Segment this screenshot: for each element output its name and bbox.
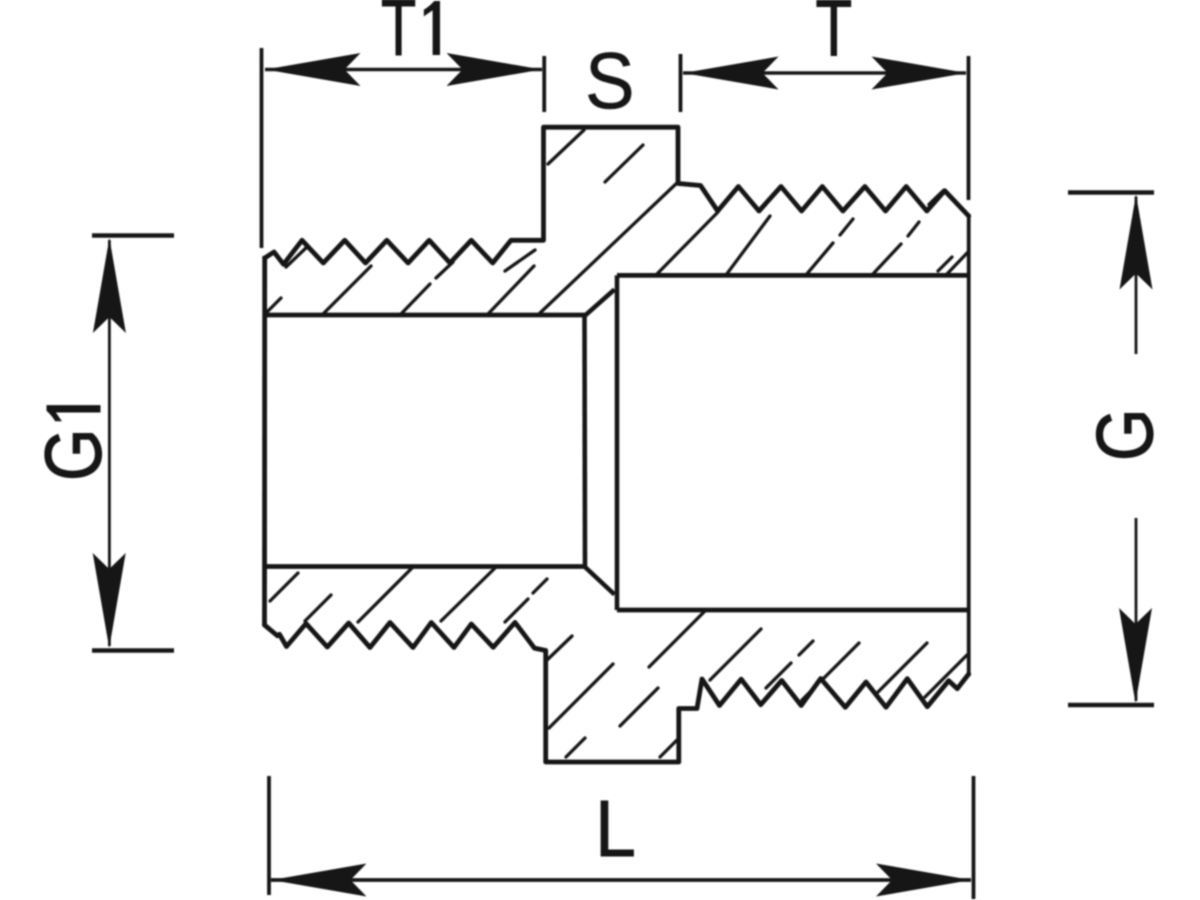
right end face [967,214,971,676]
dimension L extension line left [267,776,271,895]
dimension L extension line right [972,776,976,899]
G arrowhead up [1120,195,1153,290]
counterbore face [615,275,620,610]
shared extension line T1/S [542,56,546,112]
left end face [262,256,267,626]
dimension G bottom tick [1068,703,1154,708]
L arrowhead left [272,864,367,897]
dimension T1 extension line left [260,48,264,248]
T1 arrowhead right [447,53,542,86]
G1 arrowhead down [93,553,126,648]
svg-text:T: T [381,0,416,72]
dimension line L [271,878,971,882]
large bore bottom wall line [617,608,969,613]
dimension G1 top tick [92,233,174,238]
fitting outline: lower profile with threads and hex [265,622,969,762]
dimension G1 bottom tick [92,648,174,653]
large bore top wall line [617,273,969,278]
svg-text:T: T [816,0,853,72]
small bore end face [582,315,587,567]
dimension G line upper part [1135,197,1138,355]
section hatching, lower material band [270,567,967,757]
L arrowhead right [876,864,971,897]
dimension G top tick [1068,190,1154,195]
T1 arrowhead left [266,53,361,86]
dimension line T [683,71,966,74]
svg-text:L: L [595,784,636,874]
small bore bottom wall line [265,564,586,569]
svg-text:G: G [1080,408,1170,461]
dimension T extension line right [967,56,971,200]
label G1 rotated [28,405,118,481]
G arrowhead down [1119,608,1152,703]
label T1 [381,0,440,72]
G1 arrowhead up [93,238,126,333]
dimension line T1 [265,68,542,71]
shared extension line S/T [679,54,683,112]
small bore top wall line [265,313,585,318]
thread runout sliver, upper right [929,191,944,205]
section hatching, upper material band [266,130,969,315]
dimension G line lower part [1135,518,1138,701]
fitting outline: upper profile with threads and hex [265,127,969,264]
svg-text:S: S [585,37,635,126]
bore transition chamfer top [585,290,615,317]
T arrowhead left [684,57,779,90]
dimension G1 line [108,240,111,646]
T arrowhead right [872,57,967,90]
svg-text:G: G [28,428,118,481]
bore transition chamfer bottom [585,567,615,595]
